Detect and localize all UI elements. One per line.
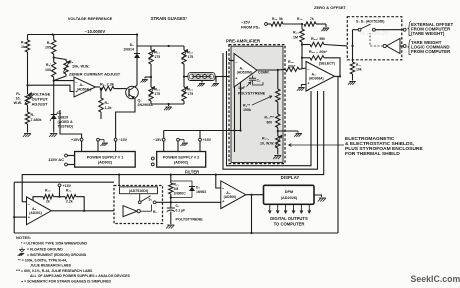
- svg-text:DIGITAL OUTPUTS: DIGITAL OUTPUTS: [270, 216, 308, 221]
- svg-text:● = SCHEMATIC FOR STRAIN GUAG: ● = SCHEMATIC FOR STRAIN GUAGES IS SIMPL…: [21, 280, 112, 284]
- svg-text:(AD902): (AD902): [98, 161, 113, 165]
- svg-text:1N914: 1N914: [123, 48, 134, 52]
- svg-text:1.2k: 1.2k: [105, 106, 112, 110]
- svg-text:FROM PS₂: FROM PS₂: [241, 26, 260, 30]
- svg-text:+15V: +15V: [71, 138, 80, 142]
- svg-text:1M: 1M: [293, 36, 298, 40]
- svg-text:1N829: 1N829: [58, 116, 69, 120]
- svg-text:NOTES:: NOTES:: [16, 235, 31, 240]
- svg-text:R₂₃: R₂₃: [155, 51, 161, 55]
- svg-text:10,: 10,: [16, 97, 21, 101]
- svg-text:C₁: C₁: [176, 204, 180, 208]
- svg-text:R₂₅: R₂₅: [188, 51, 194, 55]
- svg-text:R₁₉ – 20k*: R₁₉ – 20k*: [309, 50, 328, 54]
- svg-text:0.1 µF: 0.1 µF: [176, 209, 186, 213]
- svg-text:1N983: 1N983: [196, 190, 206, 194]
- svg-text:2.2k: 2.2k: [66, 200, 73, 204]
- svg-text:POLYSTYRENE: POLYSTYRENE: [176, 218, 204, 222]
- svg-text:ht 2000-20: ht 2000-20: [360, 31, 389, 37]
- svg-text:10k, W.W.: 10k, W.W.: [72, 65, 89, 69]
- svg-text:1N900C: 1N900C: [174, 192, 187, 196]
- svg-text:R₂₀: R₂₀: [45, 189, 51, 193]
- svg-text:105: 105: [45, 46, 51, 50]
- svg-text:20k*: 20k*: [288, 65, 296, 69]
- svg-text:−15V: −15V: [153, 138, 162, 142]
- svg-text:175: 175: [155, 55, 161, 59]
- svg-text:10, W.W.: 10, W.W.: [260, 142, 274, 146]
- svg-text:ZERO & OFFSET: ZERO & OFFSET: [314, 5, 347, 10]
- svg-text:R₂₆: R₂₆: [188, 88, 194, 92]
- svg-text:W.W.: W.W.: [14, 101, 22, 105]
- svg-text:POLYSTYRENE: POLYSTYRENE: [238, 91, 266, 95]
- svg-text:+15V: +15V: [63, 184, 72, 188]
- svg-text:= INSTRUMENT (EDISON) GROUND: = INSTRUMENT (EDISON) GROUND: [27, 253, 87, 257]
- svg-text:VOLTAGE REFERENCE: VOLTAGE REFERENCE: [68, 16, 113, 21]
- svg-text:R₂₁: R₂₁: [174, 183, 180, 187]
- svg-text:7.480k: 7.480k: [31, 118, 42, 122]
- svg-text:ADJUST: ADJUST: [32, 102, 49, 107]
- svg-text:DISPLAY: DISPLAY: [281, 175, 300, 180]
- svg-text:1M: 1M: [174, 187, 179, 191]
- svg-text:ALL OF AMPS AND POWER SUPPLIES: ALL OF AMPS AND POWER SUPPLIES = ANALOG …: [30, 274, 130, 278]
- svg-text:SeekIC.com: SeekIC.com: [411, 274, 460, 284]
- svg-text:R₈: R₈: [105, 101, 110, 105]
- svg-text:100k: 100k: [243, 108, 251, 112]
- svg-text:175: 175: [188, 55, 194, 59]
- svg-text:−15V: −15V: [119, 138, 128, 142]
- svg-text:POWER SUPPLY # 1: POWER SUPPLY # 1: [87, 156, 124, 160]
- svg-text:(AD902): (AD902): [174, 161, 189, 165]
- svg-text:R₁₄: R₁₄: [297, 17, 303, 21]
- svg-text:(AD7510DI): (AD7510DI): [129, 189, 149, 193]
- svg-text:10k: 10k: [356, 68, 362, 72]
- svg-text:175: 175: [155, 92, 161, 96]
- svg-text:R₂: R₂: [47, 41, 52, 45]
- svg-text:115V AC: 115V AC: [48, 157, 64, 162]
- svg-text:(AD520M): (AD520M): [237, 71, 252, 75]
- svg-text:(AD308A): (AD308A): [309, 77, 324, 81]
- svg-text:S₁ D₁ (AD7510DI): S₁ D₁ (AD7510DI): [356, 20, 384, 24]
- svg-text:JULIE RESEARCH LABS: JULIE RESEARCH LABS: [30, 264, 72, 268]
- svg-text:FILTER: FILTER: [185, 170, 199, 175]
- svg-text:FROM COMPUTER: FROM COMPUTER: [411, 49, 451, 54]
- svg-text:R₉**: R₉**: [243, 104, 251, 108]
- svg-text:100: 100: [45, 68, 51, 72]
- svg-text:D₃: D₃: [196, 186, 200, 190]
- svg-text:= FLOATED GROUND: = FLOATED GROUND: [27, 248, 63, 252]
- svg-text:PRE-AMPLIFIER: PRE-AMPLIFIER: [226, 39, 261, 44]
- svg-text:R₂₄: R₂₄: [155, 88, 161, 92]
- svg-text:Q₁: Q₁: [138, 99, 143, 103]
- svg-text:R₆: R₆: [16, 92, 21, 96]
- svg-text:R₅, 2.3k: R₅, 2.3k: [100, 83, 115, 87]
- svg-text:(AD301): (AD301): [29, 211, 41, 215]
- svg-text:COMP.: COMP.: [258, 71, 269, 75]
- svg-text:7k: 7k: [310, 17, 314, 21]
- svg-text:C₂: C₂: [257, 79, 261, 83]
- svg-text:(SELECT): (SELECT): [319, 62, 335, 66]
- svg-text:2k: 2k: [46, 200, 50, 204]
- svg-text:STRAIN GUAGES°: STRAIN GUAGES°: [151, 16, 188, 21]
- svg-text:600: 600: [267, 121, 273, 125]
- svg-text:+15V: +15V: [203, 138, 212, 142]
- svg-text:5k: 5k: [279, 17, 283, 21]
- svg-text:R₁₆: R₁₆: [272, 17, 278, 21]
- svg-text:R₇: R₇: [31, 113, 36, 117]
- svg-text:*** = 600, 0.1%, R-44, JULIE R: *** = 600, 0.1%, R-44, JULIE RESEARCH LA…: [16, 269, 93, 273]
- svg-text:(AD504L): (AD504L): [77, 87, 91, 91]
- svg-text:R₁₀,: R₁₀,: [262, 137, 269, 141]
- svg-text:S₂: S₂: [149, 198, 153, 202]
- svg-text:−10.0000V: −10.0000V: [85, 29, 106, 34]
- svg-text:(AD506): (AD506): [224, 195, 236, 199]
- svg-text:D₂: D₂: [130, 43, 135, 47]
- svg-text:1 µF: 1 µF: [238, 86, 246, 90]
- svg-text:R₁₇: R₁₇: [356, 63, 362, 67]
- svg-text:** = 100k, 0.005%, TYPE R-44,: ** = 100k, 0.005%, TYPE R-44,: [18, 259, 67, 263]
- svg-text:R₂₂: R₂₂: [66, 189, 72, 193]
- svg-text:175: 175: [188, 92, 194, 96]
- svg-text:(AD2026): (AD2026): [281, 196, 298, 200]
- svg-text:R₁: R₁: [21, 41, 26, 45]
- svg-text:R₁₈: R₁₈: [288, 60, 294, 64]
- svg-text:1k: 1k: [21, 45, 25, 49]
- svg-text:R₃': R₃': [46, 63, 51, 67]
- svg-text:DPM: DPM: [285, 190, 293, 194]
- svg-text:POWER SUPPLY # 2: POWER SUPPLY # 2: [163, 156, 200, 160]
- svg-text:FOR THERMAL SHIELD: FOR THERMAL SHIELD: [345, 151, 400, 157]
- svg-text:ZENER CURRENT ADJUST: ZENER CURRENT ADJUST: [69, 72, 121, 77]
- svg-text:−15V: −15V: [241, 21, 250, 25]
- svg-text:R₁₂***: R₁₂***: [265, 116, 275, 120]
- svg-text:R₄: R₄: [69, 60, 74, 64]
- svg-text:TO COMPUTER: TO COMPUTER: [274, 222, 305, 227]
- svg-text:(TARE WEIGHT): (TARE WEIGHT): [411, 31, 445, 36]
- svg-text:R₁₅: 5M: R₁₅: 5M: [311, 37, 325, 41]
- svg-text:* = ULTRONIX TYPE 105A WIREWO: * = ULTRONIX TYPE 105A WIREWOUND: [21, 242, 87, 246]
- svg-text:R₁₃: R₁₃: [293, 31, 299, 35]
